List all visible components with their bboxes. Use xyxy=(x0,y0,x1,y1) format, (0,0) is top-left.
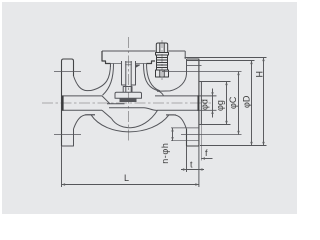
svg-text:φd: φd xyxy=(200,99,210,110)
stud bolt B1 threaded shank xyxy=(157,55,168,70)
vertical centerline xyxy=(128,37,130,141)
extension line flange back down (t) xyxy=(186,146,188,172)
extension line right face down (L,t,f) xyxy=(198,146,200,187)
extension line raised face bottom xyxy=(202,124,231,126)
left flange outline xyxy=(62,59,74,146)
dimension phi-D arrows xyxy=(250,61,252,146)
right flange raised face xyxy=(199,82,202,125)
dimension L line xyxy=(62,184,199,186)
inlet bore bottom diagonal xyxy=(102,110,112,118)
disc stem xyxy=(126,61,131,92)
inlet bore top line xyxy=(64,95,103,97)
dimension f line xyxy=(201,158,212,160)
horizontal pipe centerline xyxy=(42,102,211,104)
right flange sectioned face (bore span) xyxy=(197,95,199,110)
guide tube weld tab xyxy=(136,65,140,67)
left flange bottom edge xyxy=(62,129,74,146)
inlet bore bottom line xyxy=(64,109,103,111)
body bottom outer wall left segment xyxy=(85,114,95,116)
dimension phi-d line xyxy=(212,89,214,118)
seat bridge upper line xyxy=(107,103,125,105)
right flange bolt hole lower edge xyxy=(171,140,199,142)
svg-text:n-φh: n-φh xyxy=(160,143,170,164)
bonnet underside shelf left xyxy=(111,63,122,65)
stud bolt B1 centerline xyxy=(161,40,163,80)
left flange upper hub fillet xyxy=(74,76,92,91)
svg-text:φD: φD xyxy=(241,95,251,108)
dimension t line xyxy=(181,169,204,171)
bonnet underside shelf right xyxy=(136,63,147,65)
stud bolt B1 bottom nut xyxy=(156,70,169,77)
bonnet cover right edge xyxy=(184,51,186,59)
dimension H arrows xyxy=(262,58,264,146)
extension line raised face (f) xyxy=(200,125,202,161)
right hub upper fillet xyxy=(157,74,187,91)
dimension phi-C arrows xyxy=(237,72,239,135)
bonnet left wall inner xyxy=(103,64,114,96)
extension line bottom (phiD and H) xyxy=(200,145,267,147)
outlet bore top line xyxy=(155,95,199,97)
bonnet left wall line xyxy=(110,64,112,68)
inlet bore top diagonal to seat xyxy=(102,96,110,104)
dimension phi-D line xyxy=(251,61,253,146)
stud bolt B1 top nut xyxy=(156,43,167,53)
right flange lower hub fillet xyxy=(166,115,187,129)
right flange outline xyxy=(187,59,199,146)
extension line flange top (phiD) xyxy=(186,60,255,62)
outlet bore bottom line xyxy=(158,109,199,111)
svg-text:H: H xyxy=(254,71,264,78)
svg-text:L: L xyxy=(124,173,129,183)
disc D1 xyxy=(115,92,142,98)
seat bridge lower line xyxy=(109,108,158,111)
guide tube outer xyxy=(122,61,136,85)
svg-text:φC: φC xyxy=(228,96,238,109)
bonnet right wall inner xyxy=(144,64,164,96)
extension line left face down (L) xyxy=(61,146,63,187)
extension line H top xyxy=(185,57,267,59)
bonnet cover left edge xyxy=(102,51,111,64)
right flange left edge upper xyxy=(186,59,188,74)
right flange bolt hole upper edge xyxy=(171,127,199,129)
dimension n-phi-h arrows xyxy=(171,128,173,141)
extension line raised face top xyxy=(202,81,231,83)
dimension phi-g line xyxy=(226,82,228,125)
dimension phi-d arrows xyxy=(211,92,213,114)
seat ring (dark) xyxy=(120,98,137,102)
bonnet step right xyxy=(147,61,156,64)
dimension phi-g arrows xyxy=(225,82,227,125)
body bottom outer wall right segment xyxy=(166,114,176,116)
svg-text:φg: φg xyxy=(215,100,225,111)
lower chamber inner wall arc xyxy=(112,110,158,127)
left flange lower hub fillet xyxy=(74,115,96,129)
right bolt circle tick lower xyxy=(181,134,242,136)
stem top bushing xyxy=(125,62,132,65)
extension line bore bottom xyxy=(199,109,217,111)
bonnet right wall outer xyxy=(147,64,161,91)
right bolt circle tick upper xyxy=(162,71,242,73)
left bolt circle tick lower xyxy=(54,134,81,136)
left flange sectioned face (bore span) xyxy=(62,95,64,110)
dimension L arrows xyxy=(62,183,199,185)
left bolt circle tick upper xyxy=(54,71,81,73)
dimension t arrows xyxy=(183,168,203,170)
right flange neck line xyxy=(187,64,202,66)
dimension f arrow xyxy=(201,157,205,159)
dimension n-phi-h line xyxy=(172,128,174,141)
extension line bore top xyxy=(199,95,217,97)
bonnet cover plate top xyxy=(102,50,185,52)
bonnet left wall outer curve xyxy=(91,64,111,91)
body bottom outer arc xyxy=(91,115,169,132)
stud bolt B1 collar xyxy=(156,53,169,56)
dimension H line xyxy=(263,58,265,146)
stem collar above disc xyxy=(123,87,132,93)
dimension phi-C line xyxy=(238,72,240,135)
